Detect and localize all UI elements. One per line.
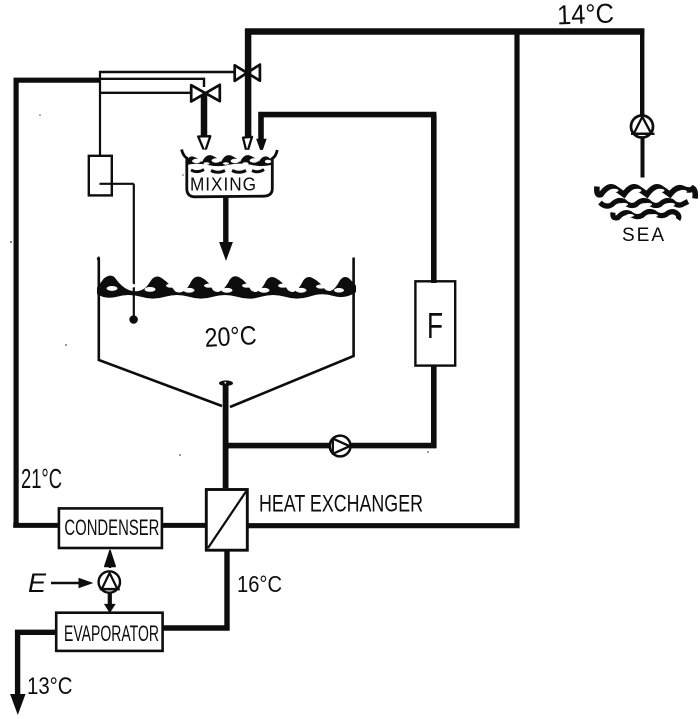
tank wall top hook	[98, 257, 100, 261]
pipe main return riser right side	[249, 29, 518, 526]
valve V1 stem pipe down	[201, 92, 208, 137]
controller sensor line	[100, 184, 134, 316]
pipe left header to condenser	[16, 80, 99, 527]
svg-text:SEA: SEA	[622, 224, 666, 246]
valve V1 bowtie	[191, 85, 220, 102]
paper specks	[10, 114, 429, 456]
arrow E to pump line	[51, 582, 79, 585]
pipe filter top riser	[431, 115, 437, 283]
hollow arrow into mixing from V2	[243, 137, 252, 154]
thin branch line C to left valve wing	[99, 92, 192, 94]
thin branch line B to left valve top	[99, 79, 204, 87]
pipe condenser to heat exchanger	[163, 523, 205, 528]
svg-text:EVAPORATOR: EVAPORATOR	[64, 621, 159, 646]
pipe tank drain vertical	[223, 384, 229, 488]
solid arrow into mixing from filter line	[257, 139, 266, 152]
svg-text:20°C: 20°C	[204, 320, 257, 353]
valve V2 stem pipe vertical	[245, 29, 252, 137]
sea water waves row2	[600, 201, 688, 207]
pump P-recirc circle	[330, 436, 351, 457]
svg-text:F: F	[427, 305, 443, 346]
mixing tank water surface	[186, 155, 274, 166]
arrow E head	[79, 578, 94, 589]
white speckles sea	[610, 189, 688, 217]
white speckles mixing	[192, 158, 271, 165]
pump P-E base chord	[100, 588, 120, 590]
hollow arrow into mixing from V1	[198, 136, 210, 152]
mixing tank body	[182, 150, 278, 197]
pipe sea supply top header 14C	[245, 28, 644, 34]
condenser box	[59, 508, 162, 548]
svg-text:13°C: 13°C	[27, 673, 73, 700]
pipe riser from sea pump	[640, 29, 644, 116]
heat exchanger diagonal	[208, 492, 246, 549]
solid arrow mixing outlet	[220, 243, 232, 260]
heat exchanger box	[206, 490, 247, 551]
thin manifold vertical at x=100	[99, 71, 101, 155]
sea water waves row1	[597, 187, 695, 199]
svg-text:MIXING: MIXING	[190, 175, 257, 195]
pump P-E triangle	[102, 573, 118, 589]
big tank water surface band	[97, 276, 356, 299]
pump P-E circle	[99, 571, 120, 592]
pump P-sea circle	[631, 116, 653, 138]
svg-text:14°C: 14°C	[557, 0, 615, 30]
pipe heat exchanger to evaporator	[163, 552, 228, 629]
squiggle arrow to condenser	[105, 551, 115, 567]
filter box F	[415, 281, 455, 365]
svg-text:E: E	[28, 568, 47, 598]
big tank left wall	[99, 258, 222, 407]
evaporator box	[56, 613, 162, 651]
pump P-sea base chord	[631, 133, 655, 135]
controller box	[89, 156, 112, 196]
pump P-sea triangle	[634, 117, 652, 134]
thin line pump to condenser	[109, 553, 111, 568]
sea water waves row3	[613, 212, 679, 220]
mixing tank water dashes	[191, 170, 264, 173]
sensor float dot	[129, 315, 138, 324]
pipe pump to evaporator	[108, 594, 112, 606]
tank drain cap	[219, 380, 233, 386]
pump P-recirc triangle	[333, 439, 350, 454]
arrow outlet bottom	[11, 695, 25, 714]
pipe filter return to mixing	[258, 112, 436, 140]
thin branch line A to right valve	[99, 71, 235, 73]
svg-text:CONDENSER: CONDENSER	[64, 515, 159, 540]
pipe evaporator outlet left	[18, 632, 57, 695]
valve V2 bowtie	[235, 65, 260, 81]
pipe mixing tank outlet	[223, 198, 228, 244]
pipe sea pump suction	[641, 137, 645, 178]
svg-text:21°C: 21°C	[21, 463, 62, 494]
big tank right wall	[230, 258, 354, 408]
svg-text:16°C: 16°C	[237, 571, 282, 597]
pipe recirculation branch to filter	[226, 366, 437, 448]
pipe condenser left connection	[13, 523, 58, 528]
arrow into evaporator	[105, 605, 115, 613]
svg-text:HEAT EXCHANGER: HEAT EXCHANGER	[259, 491, 423, 518]
white speckles in wave band	[107, 284, 345, 293]
